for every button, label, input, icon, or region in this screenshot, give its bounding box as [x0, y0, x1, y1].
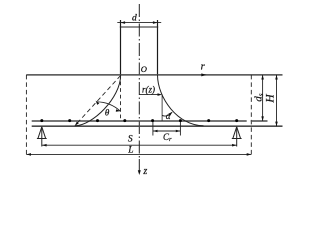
svg-text:H: H: [265, 94, 277, 104]
svg-text:d: d: [132, 14, 137, 24]
svg-text:S: S: [128, 135, 133, 145]
svg-text:r(z): r(z): [142, 84, 155, 94]
svg-text:L: L: [127, 145, 133, 155]
svg-text:α: α: [166, 111, 171, 121]
svg-text:θ: θ: [105, 107, 110, 117]
svg-text:O: O: [141, 64, 147, 74]
svg-text:z: z: [142, 166, 147, 177]
